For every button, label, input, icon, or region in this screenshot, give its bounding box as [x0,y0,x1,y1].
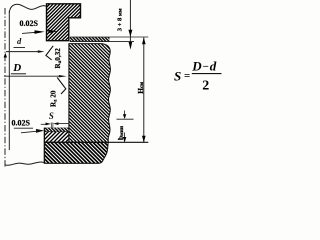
bmin dimension arrows [124,111,126,138]
Hcm bottom arrowhead [142,136,146,143]
top solder seam bar [70,37,110,42]
svg-text:Нсм: Нсм [136,82,145,94]
svg-text:=: = [184,70,190,82]
bore line of sleeve [68,44,70,143]
svg-text:bмин: bмин [116,126,125,140]
centerline arrowhead [4,53,7,58]
centerline (axis, dash-dot) [4,8,6,168]
svg-text:d: d [17,36,22,46]
bottom break wave [5,162,44,165]
svg-text:Ra0,32: Ra0,32 [54,48,63,69]
bmin top extension line [117,118,134,120]
S gap arrows [41,123,46,125]
main block (outer sleeve, dense hatch, wavy right edge) [0,44,210,143]
svg-text:–: – [202,61,209,72]
svg-text:3 + 8 мм: 3 + 8 мм [117,8,124,31]
svg-text:S: S [49,111,54,121]
svg-text:D: D [12,62,21,74]
Hcm dimension line [143,37,145,142]
svg-text:d: d [210,58,217,73]
upper tube piece (hatched, with tab) [10,4,116,41]
svg-text:S: S [174,68,181,83]
left edge of lower assembly [43,128,45,164]
svg-text:D: D [191,58,202,73]
Rz 20 roughness mark [57,78,66,95]
Ra 0,32 roughness mark [46,46,53,60]
svg-text:0.02S: 0.02S [12,119,31,128]
inner bore line of tubes [8,11,10,150]
3+8mm dimension [129,0,131,42]
bottom band (bold hatch) [24,142,129,163]
extension line B [70,41,134,43]
svg-text:0.02S: 0.02S [20,19,39,28]
lower tube shoulder (opposite hatch) [34,132,76,143]
bottom extension line (Hcm / bmin base) [44,141,148,143]
top break wave [9,4,47,12]
Hcm top arrowhead [142,38,146,45]
bottom solder seam bar [44,128,69,132]
svg-text:Rz 20: Rz 20 [49,90,58,107]
svg-text:2: 2 [202,78,209,93]
S gap surface stubs [50,123,52,128]
extension line A (top) [70,36,148,38]
